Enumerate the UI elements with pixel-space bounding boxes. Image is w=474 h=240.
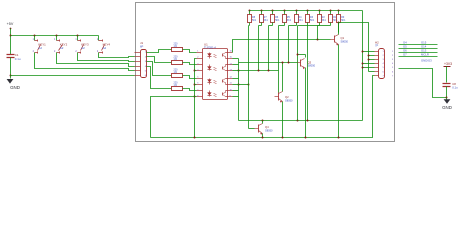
wire — [183, 63, 197, 65]
wire — [305, 68, 307, 138]
resistor R12 — [172, 74, 183, 78]
svg-text:5K1: 5K1 — [252, 19, 257, 22]
wire — [297, 26, 299, 121]
wire — [369, 59, 375, 61]
push button KEY2 — [56, 36, 58, 41]
wire — [446, 87, 448, 98]
junction — [248, 84, 250, 86]
svg-text:A2: A2 — [60, 46, 64, 50]
wire — [317, 26, 319, 40]
junction — [194, 70, 196, 72]
svg-text:5K1: 5K1 — [322, 19, 327, 22]
channel 4 LED — [197, 90, 203, 92]
wire v6 to Q3 collector — [298, 54, 306, 56]
junction — [34, 35, 36, 37]
wire — [369, 71, 375, 73]
resistor R6 — [272, 10, 274, 12]
resistor R13 — [172, 87, 183, 91]
pin 5 H2 — [375, 67, 379, 69]
svg-text:7P: 7P — [375, 44, 378, 48]
wire — [183, 50, 197, 53]
wire Q3 base net — [239, 62, 298, 64]
sheet frame — [136, 3, 395, 142]
transistor Q1 S8050 — [334, 36, 336, 43]
wire — [318, 25, 331, 27]
resistor R3 — [307, 10, 309, 12]
svg-text:5K1: 5K1 — [333, 19, 338, 22]
junction — [338, 137, 340, 139]
junction — [194, 84, 196, 86]
connector J1 — [141, 50, 147, 78]
wire — [268, 26, 270, 71]
junction — [238, 84, 240, 86]
pin 2 H2 — [375, 55, 379, 57]
wire — [233, 70, 239, 72]
junction — [268, 70, 270, 72]
pin 4 H2 — [375, 63, 379, 65]
wire — [262, 134, 264, 138]
svg-text:G7: G7 — [403, 53, 407, 57]
channel 1 phototransistor — [222, 54, 224, 57]
wire GND bus — [11, 75, 135, 77]
junction — [194, 137, 196, 139]
wire — [147, 57, 172, 63]
svg-text:5K1: 5K1 — [264, 19, 269, 22]
svg-text:S8050: S8050 — [285, 99, 293, 103]
transistor Q3 S8050 — [300, 60, 302, 67]
wire Q1 base net — [233, 40, 331, 53]
wire — [233, 78, 239, 80]
channel 1 LED — [197, 52, 203, 54]
svg-text:5K1: 5K1 — [298, 19, 303, 22]
wire — [249, 25, 250, 27]
wire link — [239, 84, 249, 86]
net G5 — [399, 48, 438, 50]
svg-text:S8050: S8050 — [265, 129, 273, 133]
svg-text:A2: A2 — [38, 46, 42, 50]
wire — [195, 96, 197, 98]
transistor Q2 S8050 — [278, 93, 280, 101]
svg-text:A2: A2 — [81, 46, 85, 50]
svg-text:GND/G3: GND/G3 — [421, 58, 432, 62]
wire bottom GND rail — [151, 76, 375, 138]
wire — [147, 62, 172, 76]
junction — [305, 137, 307, 139]
junction — [288, 62, 290, 64]
junction — [238, 70, 240, 72]
wire — [10, 58, 12, 76]
svg-text:5K1: 5K1 — [310, 19, 315, 22]
junction — [56, 35, 58, 37]
wire — [233, 58, 239, 60]
channel 3 phototransistor — [222, 80, 224, 83]
wire L1 net — [239, 120, 363, 122]
svg-text:Q4: Q4 — [265, 125, 269, 129]
pin 1 H2 — [375, 51, 379, 53]
wire — [278, 26, 280, 93]
net G7 — [399, 56, 438, 58]
wire — [288, 26, 290, 63]
ground GND right — [446, 98, 448, 100]
junction — [262, 137, 264, 139]
wire — [289, 25, 297, 27]
junction — [297, 54, 299, 56]
wire Q4 base — [249, 128, 255, 130]
svg-text:TLP281-4: TLP281-4 — [204, 46, 216, 50]
svg-text:GND: GND — [442, 105, 452, 110]
pin 4 J1 — [135, 66, 141, 68]
push button KEY3 — [77, 36, 79, 41]
junction — [362, 67, 364, 69]
wire — [233, 84, 239, 86]
wire Q2 base net — [239, 70, 279, 72]
pin 1 J1 — [135, 52, 141, 54]
svg-text:S8050: S8050 — [341, 40, 349, 44]
wire — [369, 55, 375, 57]
resistor R11 — [172, 61, 183, 65]
svg-text:A2: A2 — [103, 46, 107, 50]
wire top rail — [249, 10, 363, 12]
wire — [305, 55, 307, 58]
channel 2 LED — [197, 64, 203, 66]
wire — [258, 26, 260, 71]
svg-text:Q3: Q3 — [308, 60, 312, 64]
pin 5 J1 — [135, 70, 141, 72]
connector H2 — [379, 49, 385, 79]
wire — [269, 25, 273, 27]
junction — [338, 22, 340, 24]
junction — [10, 75, 12, 77]
resistor R9 — [338, 10, 340, 12]
wire — [298, 25, 308, 27]
junction — [368, 59, 370, 61]
pin 2 J1 — [135, 56, 141, 58]
channel 4 phototransistor — [222, 93, 224, 96]
junction — [10, 35, 12, 37]
resistor R10 — [172, 48, 183, 52]
channel 3 LED — [197, 78, 203, 80]
wire rail riser x=362.5 — [362, 11, 364, 121]
junction — [362, 51, 364, 53]
pin 3 J1 — [135, 61, 141, 63]
wire — [238, 59, 240, 121]
wire — [338, 45, 340, 138]
wire Q2 collector riser to Q3 base net — [282, 63, 284, 92]
pin 6 J1 — [135, 75, 141, 77]
wire cathode common — [195, 59, 197, 138]
svg-text:Q2: Q2 — [285, 95, 289, 99]
junction — [282, 137, 284, 139]
wire — [262, 121, 264, 124]
wire — [259, 25, 262, 27]
junction — [282, 62, 284, 64]
wire — [183, 76, 197, 79]
svg-text:0.1u: 0.1u — [15, 57, 21, 61]
transistor Q4 S8050 — [258, 125, 260, 133]
resistor R7 — [261, 10, 263, 12]
junction — [446, 97, 448, 99]
junction — [262, 120, 264, 122]
resistor R1 — [330, 10, 332, 12]
wire — [233, 96, 239, 98]
svg-text:5K1: 5K1 — [287, 19, 292, 22]
svg-text:GND: GND — [10, 85, 20, 90]
optocoupler U1 TLP281-4 — [203, 49, 228, 100]
wire — [233, 90, 239, 92]
pin 7 H2 — [375, 75, 379, 77]
wire — [151, 97, 195, 138]
ground GND — [10, 76, 12, 79]
capacitor C1 — [10, 36, 12, 55]
net G4 — [399, 44, 438, 46]
resistor R2 — [319, 10, 321, 12]
wire — [338, 23, 340, 35]
wire — [446, 67, 448, 83]
wire — [248, 26, 250, 129]
wire — [35, 53, 135, 71]
junction — [297, 120, 299, 122]
wire — [308, 25, 320, 27]
svg-text:+3V3: +3V3 — [444, 62, 452, 66]
svg-text:MCLR: MCLR — [421, 53, 429, 57]
junction — [77, 35, 79, 37]
svg-text:Q1: Q1 — [341, 36, 345, 40]
svg-text:0.1u: 0.1u — [452, 86, 458, 90]
junction — [362, 63, 364, 65]
wire — [78, 53, 135, 62]
wire — [363, 51, 375, 53]
net G6 — [399, 52, 438, 54]
wire — [363, 67, 375, 69]
wire — [363, 63, 375, 65]
resistor R5 — [284, 10, 286, 12]
capacitor C8 — [443, 83, 451, 85]
wire Q1 collector net riser x=369 — [339, 23, 369, 72]
channel 2 phototransistor — [222, 67, 224, 70]
junction — [258, 70, 260, 72]
svg-text:5K1: 5K1 — [341, 19, 346, 22]
wire — [99, 53, 135, 58]
junction — [317, 39, 319, 41]
wire — [10, 29, 12, 36]
pin 3 H2 — [375, 59, 379, 61]
wire +5V rail — [11, 35, 99, 37]
wire — [233, 64, 239, 66]
resistor R8 — [249, 10, 251, 12]
junction — [307, 120, 309, 122]
wire — [279, 25, 285, 27]
push button KEY1 — [34, 36, 36, 41]
wire — [307, 26, 309, 121]
svg-text:+5V: +5V — [7, 22, 14, 26]
junction — [194, 96, 196, 98]
svg-text:5K1: 5K1 — [275, 19, 280, 22]
wire — [147, 50, 172, 53]
svg-text:S8050: S8050 — [308, 64, 316, 68]
svg-text:6P: 6P — [140, 44, 143, 48]
resistor R4 — [296, 10, 298, 12]
wire — [183, 89, 197, 91]
wire Q2 emitter riser — [282, 102, 284, 138]
wire — [57, 53, 135, 67]
pin 6 H2 — [375, 71, 379, 73]
push button KEY4 — [98, 36, 100, 41]
wire — [147, 67, 172, 89]
junction — [368, 55, 370, 57]
